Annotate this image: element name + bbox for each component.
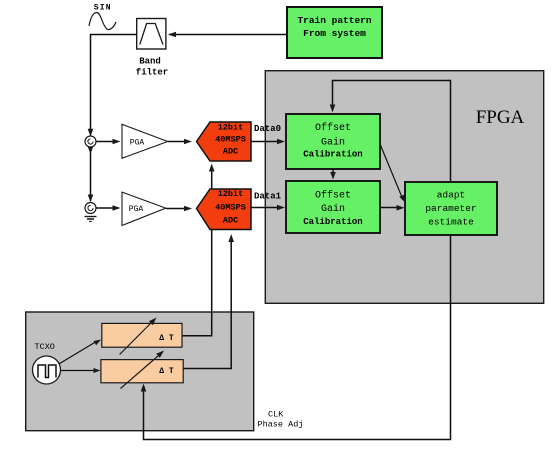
svg-text:Offset: Offset	[315, 189, 351, 201]
svg-text:From system: From system	[303, 28, 366, 39]
svg-text:PGA: PGA	[129, 205, 144, 214]
band filter	[136, 19, 168, 78]
svg-text:ADC: ADC	[223, 216, 238, 226]
svg-text:CLK: CLK	[268, 410, 284, 420]
svg-text:40MSPS: 40MSPS	[215, 203, 246, 213]
train pattern from system box	[287, 7, 382, 58]
CLK Phase Adj label	[258, 410, 304, 430]
svg-text:Train pattern: Train pattern	[297, 15, 371, 26]
svg-text:Δ T: Δ T	[159, 334, 174, 343]
ADC2 12bit 40MSPS	[197, 189, 252, 230]
wire TCXO to delay line 2	[61, 368, 101, 373]
svg-text:PGA: PGA	[130, 139, 145, 148]
svg-text:parameter: parameter	[425, 203, 476, 214]
svg-text:Δ T: Δ T	[159, 367, 174, 376]
ground	[85, 217, 97, 222]
wire delay line 1 clock to ADC1	[182, 164, 215, 336]
FPGA label	[476, 107, 525, 128]
svg-text:Band: Band	[139, 57, 161, 67]
wire ADC2 data bus Data1 to offset gain calibration 2	[251, 205, 285, 211]
svg-text:12bit: 12bit	[218, 123, 244, 133]
ADC1 12bit 40MSPS	[197, 122, 252, 161]
signal source SIN	[89, 4, 116, 30]
adapt parameter estimate box	[405, 182, 497, 235]
svg-text:filter: filter	[136, 68, 168, 78]
delay line 1	[102, 318, 182, 355]
svg-text:Gain: Gain	[321, 137, 345, 149]
wire delay line 2 clock to ADC2	[183, 234, 234, 369]
wire ADC1 data bus Data0 to offset gain calibration 1	[251, 139, 285, 145]
offset gain calibration box 2	[286, 181, 380, 233]
offset gain calibration box 1	[286, 114, 380, 169]
svg-text:Calibration: Calibration	[303, 150, 362, 160]
svg-text:TCXO: TCXO	[35, 342, 55, 352]
wire offset gain calibration 1 to 2	[330, 169, 336, 180]
svg-text:Phase Adj: Phase Adj	[258, 420, 304, 430]
wire splitter chain node A to node B	[88, 147, 94, 203]
svg-text:SIN: SIN	[94, 4, 112, 13]
svg-text:estimate: estimate	[428, 217, 474, 228]
oscillator TCXO	[33, 342, 61, 384]
delay line 2	[101, 351, 183, 389]
wire TCXO to delay line 1	[58, 340, 101, 365]
wire PGA2 to ADC2	[166, 206, 192, 212]
svg-text:Data1: Data1	[254, 192, 282, 202]
svg-text:Calibration: Calibration	[303, 217, 362, 227]
svg-text:FPGA: FPGA	[476, 107, 525, 128]
svg-text:12bit: 12bit	[218, 189, 244, 199]
svg-text:Data0: Data0	[254, 124, 281, 134]
wire adapt parameter estimate feedback to delay line 2	[141, 235, 451, 440]
FPGA region	[265, 71, 543, 304]
wire train pattern to band filter	[168, 32, 287, 38]
svg-text:adapt: adapt	[437, 190, 466, 201]
splitter node B	[85, 203, 96, 214]
splitter node A	[85, 136, 96, 147]
wire band filter output to splitter	[88, 35, 136, 137]
amplifier PGA1	[122, 124, 168, 158]
svg-text:Offset: Offset	[315, 122, 351, 134]
TCXO clock region	[26, 312, 254, 431]
node Data1 label	[254, 192, 282, 202]
svg-text:ADC: ADC	[223, 147, 238, 157]
wire splitter1 to PGA1	[96, 139, 121, 145]
amplifier PGA2	[122, 192, 166, 225]
wire PGA1 to ADC1	[168, 139, 192, 145]
svg-text:Gain: Gain	[321, 203, 345, 215]
svg-text:40MSPS: 40MSPS	[215, 135, 246, 145]
wire feedback adapt estimate to offset gain calibration 1	[330, 81, 451, 183]
wire offset gain calibration 2 to adapt parameter estimate	[380, 205, 405, 211]
wire offset gain calibration 1 to adapt parameter estimate	[380, 144, 405, 203]
node Data0 label	[254, 124, 281, 134]
wire splitter2 to PGA2	[96, 205, 121, 211]
